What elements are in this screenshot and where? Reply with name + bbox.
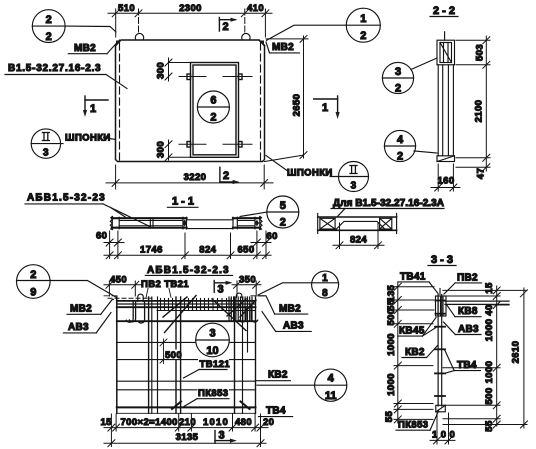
stirrup tick band [161,299,232,311]
svg-text:300: 300 [156,62,167,79]
svg-text:10: 10 [206,345,218,357]
column 3-3 body [438,295,442,407]
label AV3 plan-left [63,313,111,333]
column body [438,65,453,156]
svg-text:ПВ2: ПВ2 [457,273,478,284]
label shponki left [104,138,116,140]
callout circle 1/8 [258,271,339,298]
svg-text:3 - 3: 3 - 3 [431,254,453,266]
section mark 3 bottom [215,431,237,444]
svg-text:8: 8 [322,288,328,299]
section 3-3 left dims [394,283,434,423]
svg-text:2 - 2: 2 - 2 [433,5,455,17]
svg-text:1 - 1: 1 - 1 [172,196,194,208]
svg-text:1: 1 [90,103,96,115]
svg-text:1000: 1000 [386,373,397,396]
svg-text:4: 4 [397,134,404,146]
lifting loop left [135,33,143,40]
dim 300 top [165,58,191,81]
svg-text:2: 2 [223,170,229,182]
svg-text:824: 824 [199,245,216,256]
svg-text:410: 410 [247,3,264,14]
svg-text:1000: 1000 [484,361,495,384]
svg-text:824: 824 [350,235,367,246]
svg-text:КВ2: КВ2 [405,347,425,358]
column bottom block [437,156,455,162]
label PV2 section [444,283,482,294]
label KV8 [447,305,482,317]
svg-text:3: 3 [43,148,49,159]
corner embed plate left [116,41,121,47]
svg-text:1000: 1000 [386,333,397,356]
dim 300 bottom [165,140,191,161]
column top block [437,40,455,65]
plan bottom dims row2 [104,440,266,447]
svg-text:ТВ4: ТВ4 [457,360,477,371]
corner dash marks [104,295,266,297]
svg-text:350: 350 [239,275,256,286]
bent bar marks [172,402,250,410]
column 3-3 bottom block [436,405,446,412]
label PK853 plan [184,388,229,407]
svg-text:503: 503 [475,44,486,61]
mesh verticals [117,297,256,413]
svg-text:2: 2 [46,31,52,43]
svg-text:ПВ2 ТВ21: ПВ2 ТВ21 [141,279,189,290]
callout circle 4/2 [384,130,437,161]
svg-text:40: 40 [484,304,495,315]
callout circle 4/11 [257,369,347,401]
panel edge dashed lines [120,43,261,160]
svg-text:1: 1 [360,13,366,25]
svg-text:МВ2: МВ2 [74,43,96,54]
section 3-3 right dim 2610 [520,288,527,428]
svg-text:4: 4 [328,373,335,385]
label KV2 plan [257,380,291,382]
svg-text:2610: 2610 [511,341,522,364]
mesh horizontals [117,304,256,413]
lifting loop right [242,33,250,40]
label TV121 [184,359,230,379]
dim 60 right [251,231,271,259]
svg-text:2: 2 [223,21,229,33]
callout circle 5/2 [240,196,299,228]
svg-text:9: 9 [30,287,36,299]
svg-text:ШПОНКИ: ШПОНКИ [287,168,333,179]
callout circle II/3 right [330,162,369,192]
callout circle 2/2 [32,10,116,43]
KV8 bars [445,301,509,304]
svg-text:15: 15 [101,417,113,428]
label AV3 section [444,322,482,335]
svg-text:МВ2: МВ2 [279,304,301,315]
panel outline [116,40,265,162]
svg-text:МВ2: МВ2 [272,42,294,53]
svg-text:1746: 1746 [140,245,163,256]
svg-text:60: 60 [267,231,278,242]
hairpin loop left [138,294,144,301]
label AV3 plan-right [262,312,311,332]
svg-text:3: 3 [209,328,215,340]
svg-text:КВ8: КВ8 [458,306,478,317]
label TV4 plan [259,416,293,418]
label PK853 section [396,411,439,430]
svg-text:11: 11 [325,390,337,402]
svg-text:АБВ1.5-32-2.3: АБВ1.5-32-2.3 [147,265,230,276]
callout circle 3/2 [382,58,437,94]
rebar hooks right [240,307,258,322]
column 3-3 top joint [436,289,447,317]
profile 1-1 left block [112,217,187,229]
dim 500 inner [160,339,167,364]
callout circle 1/2 [267,8,381,42]
label PV2 TV21 [146,289,171,298]
svg-text:1010: 1010 [203,417,229,428]
column 3-3 crossbars [435,301,445,397]
dim 3220 bottom [106,165,273,189]
svg-text:2300: 2300 [179,3,202,14]
variant dim 824 [333,223,384,249]
svg-text:500: 500 [165,350,182,361]
corner embed plate right [259,41,264,47]
title 2-2 [430,16,458,18]
svg-text:1: 1 [322,102,328,114]
svg-text:210: 210 [179,417,196,428]
svg-text:6: 6 [210,95,216,107]
door opening [187,63,242,158]
callout circle 3/10 [196,323,230,357]
section 3-3 right dims inner [443,286,527,428]
svg-text:2: 2 [46,14,52,26]
svg-text:60: 60 [96,231,107,242]
column top pin [444,32,446,40]
svg-text:МВ2: МВ2 [70,304,92,315]
section 2-2 dim 160 [431,164,460,191]
callout circle 6/2 [197,91,229,123]
title 1-1 [167,206,198,208]
svg-text:650: 650 [237,245,254,256]
dense bar block right [229,297,252,321]
label ABV1.5-32-23 [25,204,152,228]
profile 1-1 door band [187,220,234,229]
label KV45 [398,318,436,337]
svg-text:15: 15 [484,282,495,294]
label Dlya B1.5-32.27.16-2.3A [331,209,444,218]
profile 1-1 left cap [110,217,112,230]
svg-text:2: 2 [360,30,366,42]
top dimension line [108,9,272,37]
svg-text:3135: 3135 [176,432,199,443]
svg-text:2100: 2100 [474,100,485,123]
section 2-2 right dims [456,36,490,171]
svg-text:3: 3 [219,430,225,442]
svg-text:ПК853: ПК853 [398,420,428,431]
label MV2 plan-left [67,300,113,315]
svg-text:АВ3: АВ3 [68,322,89,333]
dim 2650 right [265,35,309,161]
dim 60 left [104,231,124,259]
svg-text:ШПОНКИ: ШПОНКИ [65,133,111,144]
title ABV1.5-32-2.3 [145,274,232,276]
svg-text:55: 55 [384,411,395,423]
svg-text:135: 135 [386,284,397,301]
svg-text:1 0 0: 1 0 0 [432,429,455,440]
svg-text:500: 500 [386,308,397,325]
svg-text:2: 2 [30,269,36,281]
svg-text:АВ3: АВ3 [283,321,304,332]
label MV2 plan-right [258,296,308,314]
section mark 1 right [314,96,340,119]
svg-text:700×2=1400: 700×2=1400 [121,417,178,428]
section mark 3 top [214,281,232,293]
svg-text:1000: 1000 [484,319,495,342]
svg-text:450: 450 [110,275,127,286]
rebar hooks left [126,301,144,323]
svg-text:В1.5-32.27.16-2.3: В1.5-32.27.16-2.3 [8,63,101,74]
svg-text:2: 2 [395,83,401,95]
svg-text:500: 500 [484,387,495,404]
svg-text:КВ2: КВ2 [268,370,288,381]
label MB2 right [266,42,300,53]
label TV4 section [445,350,481,374]
svg-text:1: 1 [322,273,328,284]
svg-text:2: 2 [280,217,286,229]
label KV2 section [402,346,438,358]
svg-text:510: 510 [118,3,135,14]
svg-text:Для В1.5-32.27.16-2.3А: Для В1.5-32.27.16-2.3А [333,198,444,209]
svg-text:5: 5 [280,200,286,212]
hairpin loop right [236,293,242,297]
svg-text:ТВ121: ТВ121 [200,359,231,370]
svg-text:480: 480 [235,417,252,428]
callout circle II/3 left [31,129,63,158]
plan bottom dims row1 [104,414,268,447]
svg-text:АБВ1.5-32-23: АБВ1.5-32-23 [27,193,106,204]
svg-text:300: 300 [156,141,167,158]
svg-text:160: 160 [437,176,454,187]
section mark 2 top [219,18,237,32]
svg-text:КВ45: КВ45 [399,326,425,337]
profile 1-1 right block [233,217,262,230]
svg-text:2: 2 [210,112,216,124]
svg-text:ТВ41: ТВ41 [400,272,426,283]
svg-text:3220: 3220 [184,172,207,183]
opening axis lines [179,77,252,145]
svg-text:3: 3 [351,181,357,192]
mesh X diagonals [163,296,256,333]
svg-text:20: 20 [263,417,274,428]
callout circle 2/9 [17,265,117,299]
svg-text:2650: 2650 [292,94,303,117]
title 3-3 [428,265,456,267]
variant profile body [318,214,397,234]
svg-text:АВ3: АВ3 [458,324,479,335]
dim line 1746 824 650 [104,233,271,259]
label shponki right [266,156,287,171]
svg-text:3: 3 [395,66,401,78]
svg-text:ПК853: ПК853 [198,388,228,399]
dim 450 [104,281,141,296]
label TV41 [398,282,438,294]
section 3-3 bottom dim 100 [430,413,455,444]
section mark 1 left [83,96,108,117]
mesh top dash axis [108,297,152,299]
svg-text:2: 2 [397,151,403,163]
svg-text:55: 55 [484,420,495,432]
mesh top chords [117,301,256,307]
dim 350 [232,281,261,296]
label MB2 left [68,43,117,54]
svg-text:47: 47 [476,168,487,179]
svg-text:ТВ4: ТВ4 [266,406,286,417]
section mark 2 bottom [220,167,240,184]
label B1.5-32.27.16-2.3 [5,75,127,89]
svg-text:3: 3 [218,284,224,296]
